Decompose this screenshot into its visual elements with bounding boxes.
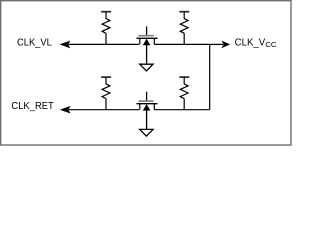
wire row1 left segment: [69, 43, 140, 45]
resistor R2: [180, 12, 188, 45]
down-arrow symbol below Q1 (open triangle): [140, 64, 153, 71]
Q2 body lead wire down: [146, 110, 148, 130]
terminal T-bar of resistor R1: [101, 11, 111, 13]
transistor Q1 gate bar: [139, 35, 154, 37]
resistor R1: [102, 12, 110, 45]
node CLK_VL label: [17, 37, 52, 48]
svg-text:CLK_VL: CLK_VL: [17, 37, 52, 48]
transistor Q1 body arrow (points up to channel): [143, 39, 151, 46]
svg-text:CLK_V: CLK_V: [235, 37, 266, 48]
terminal T-bar of resistor R3: [101, 76, 111, 78]
resistor R3: [102, 77, 110, 110]
transistor Q2 body arrow (points up to channel): [143, 104, 151, 111]
node CLK_RET label: [11, 101, 53, 112]
wire row2 right segment to junction corner: [154, 109, 209, 111]
node CLK_VCC label: [235, 37, 277, 49]
Q1 body lead wire down: [146, 44, 148, 64]
port arrow CLK_VL (left-pointing): [60, 41, 71, 49]
port arrow CLK_RET (left-pointing): [60, 106, 71, 114]
transistor Q1 source stub: [139, 38, 141, 44]
border frame: [1, 1, 291, 145]
terminal T-bar of resistor R4: [179, 76, 189, 78]
transistor Q1 gate stub: [146, 26, 148, 35]
transistor Q2 source stub: [139, 104, 141, 110]
wire row2 left segment: [69, 109, 139, 111]
wire row1 middle segment: [154, 43, 209, 45]
transistor Q1 channel: [137, 37, 158, 39]
svg-text:CC: CC: [265, 40, 277, 49]
port arrow CLK_VCC (right-pointing): [221, 41, 230, 49]
wire row1 right segment to CLK_VCC arrow: [210, 43, 223, 45]
junction wire from row1 to row2 (vertical): [209, 44, 211, 109]
transistor Q1 drain stub: [153, 38, 155, 44]
transistor Q2 channel: [137, 103, 158, 105]
transistor Q2 gate bar: [139, 100, 154, 102]
resistor R4: [180, 77, 188, 110]
transistor Q2 drain stub: [153, 104, 155, 110]
down-arrow symbol below Q2 (open triangle): [140, 129, 153, 136]
terminal T-bar of resistor R2: [179, 11, 189, 13]
transistor Q2 gate stub: [146, 92, 148, 101]
svg-text:CLK_RET: CLK_RET: [11, 101, 53, 112]
